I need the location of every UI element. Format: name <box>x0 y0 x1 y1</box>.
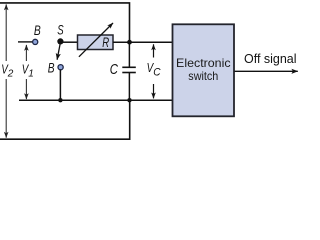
svg-text:Off signal: Off signal <box>244 52 297 66</box>
switch arm arrow <box>57 44 60 60</box>
wire: top rail <box>0 3 130 42</box>
svg-text:V2: V2 <box>1 61 14 79</box>
junction dot B2/mid <box>58 98 62 102</box>
svg-text:C: C <box>110 61 118 78</box>
wire: capacitor to middle rail <box>128 73 130 100</box>
wire: open-contact stub <box>18 41 33 43</box>
svg-text:B: B <box>34 23 41 38</box>
junction dot cap/mid <box>127 98 131 102</box>
resistor R body <box>78 35 114 50</box>
capacitor C plates <box>122 66 136 68</box>
svg-text:Electronic: Electronic <box>176 56 231 70</box>
svg-text:VC: VC <box>147 60 161 79</box>
arrow V2 (full-height voltage arrow) <box>5 4 7 61</box>
wire: middle rail <box>19 99 173 101</box>
contact B2 dot <box>58 65 63 70</box>
electronic switch box U1 <box>173 24 235 116</box>
junction node A dot <box>127 40 132 45</box>
wire: bottom rail <box>0 100 130 139</box>
resistor variable arrow (diagonal) <box>79 23 113 57</box>
wire: junction down to capacitor <box>128 42 130 67</box>
arrow VC (voltage across capacitor) <box>153 44 155 57</box>
contact B1 dot <box>33 39 38 44</box>
svg-text:B: B <box>48 60 55 75</box>
switch pole S dot <box>57 38 63 44</box>
wire: resistor to electronic switch <box>113 41 173 43</box>
svg-text:switch: switch <box>188 69 218 83</box>
wire: S to resistor <box>62 41 78 43</box>
arrow V1 (stub-to-mid voltage arrow) <box>25 45 27 61</box>
svg-text:R: R <box>102 35 109 50</box>
off signal output arrow <box>235 70 298 72</box>
wire: B2 contact down to middle rail <box>59 70 61 101</box>
svg-text:S: S <box>57 22 63 37</box>
svg-text:V1: V1 <box>22 61 34 79</box>
